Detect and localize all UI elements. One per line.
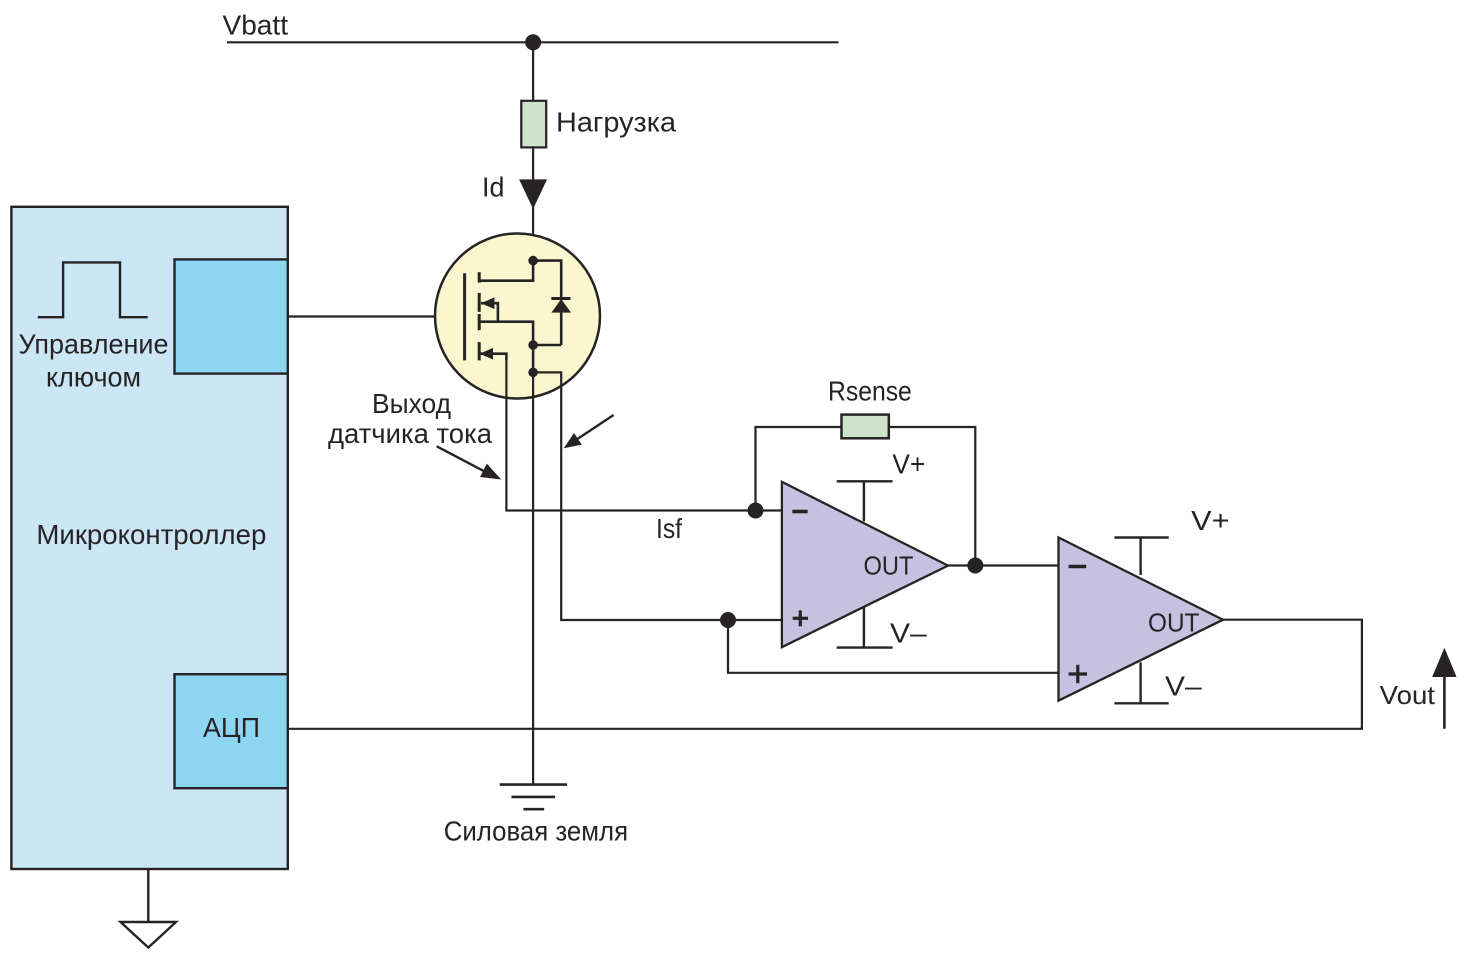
ground symbol (microcontroller, open triangle)	[121, 922, 177, 948]
body diode anode wire	[560, 313, 563, 345]
svg-text:Id: Id	[482, 172, 504, 203]
U2 inverting input sign	[1069, 565, 1087, 569]
ADC sub-block	[175, 674, 288, 788]
node Q1 drain	[528, 256, 538, 266]
U2 noninverting input sign	[1069, 672, 1087, 675]
node inverting input U1	[748, 503, 764, 519]
current direction arrow Id	[519, 179, 547, 209]
resistor Rsense	[842, 415, 889, 439]
Q1 main source arrow	[481, 303, 498, 322]
resistor load (Нагрузка)	[521, 101, 546, 148]
node Vbatt junction	[525, 34, 541, 50]
node U1 output	[967, 558, 983, 574]
U1 V+ rail	[863, 481, 865, 521]
node noninverting input U1	[720, 612, 736, 628]
wire feedback from inverting node to Rsense	[756, 427, 842, 511]
node Q1 main source	[528, 340, 538, 350]
svg-text:Выход: Выход	[372, 388, 451, 419]
Q1 drain lead	[479, 261, 533, 281]
wire Rsense to output node	[889, 427, 976, 566]
Q1 channel segment body contact	[478, 293, 481, 312]
wire U1 output to U2 inverting input	[948, 564, 1059, 566]
svg-text:Vbatt: Vbatt	[223, 9, 289, 40]
U1 noninverting input sign	[793, 617, 808, 620]
svg-text:V–: V–	[890, 618, 927, 649]
svg-text:V+: V+	[892, 449, 925, 480]
svg-text:Управление: Управление	[19, 329, 169, 360]
wire main source to power ground	[532, 372, 534, 784]
Vout direction arrow	[1443, 674, 1446, 729]
svg-text:V+: V+	[1191, 505, 1229, 536]
microcontroller block	[11, 207, 287, 869]
Q1 gate electrode	[463, 273, 466, 360]
annotation arrow to kelvin wire	[574, 415, 614, 441]
body diode cathode bar	[551, 297, 570, 300]
svg-text:Isf: Isf	[656, 513, 682, 544]
wire main source node down	[532, 345, 535, 372]
svg-text:Микроконтроллер: Микроконтроллер	[36, 519, 266, 550]
Q1 channel segment source contact	[478, 314, 481, 330]
U1 V- rail	[863, 608, 865, 648]
svg-text:OUT: OUT	[1148, 608, 1200, 638]
pulse waveform icon	[38, 262, 148, 317]
node Q1 kelvin source	[528, 368, 538, 378]
gate-drive sub-block	[175, 259, 288, 373]
svg-text:V–: V–	[1165, 671, 1202, 702]
power ground symbol bar 3	[523, 808, 544, 811]
power ground symbol bar 2	[511, 796, 555, 799]
U2 V- rail	[1139, 662, 1141, 703]
wire gate drive to MOSFET gate	[288, 315, 465, 317]
U1 inverting input sign	[792, 510, 807, 514]
svg-text:АЦП: АЦП	[203, 712, 260, 743]
annotation arrow to sense output wire	[437, 446, 489, 474]
svg-text:Силовая земля: Силовая земля	[444, 816, 628, 847]
ground lead (microcontroller)	[147, 869, 149, 922]
svg-text:Vout: Vout	[1380, 680, 1436, 710]
wire load to MOSFET drain	[532, 147, 534, 260]
svg-text:ключом: ключом	[46, 361, 141, 392]
op-amp U1	[782, 482, 948, 647]
wire kelvin source to noninverting input	[533, 372, 782, 620]
body diode triangle	[551, 299, 571, 313]
wire Vbatt to load resistor	[532, 42, 534, 101]
Q1 sense source arrow	[480, 354, 507, 360]
Q1 channel segment sense contact	[478, 342, 481, 360]
wire drain node to body diode cathode	[533, 261, 561, 299]
svg-text:Нагрузка: Нагрузка	[556, 107, 676, 138]
U2 V+ rail	[1139, 538, 1141, 576]
power ground symbol bar 1	[500, 783, 567, 786]
Q1 main source lead	[479, 322, 533, 345]
svg-text:Rsense: Rsense	[828, 376, 912, 407]
transistor Q1 sense-MOSFET body (circle)	[435, 234, 600, 399]
wire U2 output to ADC input	[288, 620, 1362, 729]
op-amp U2	[1059, 538, 1224, 701]
svg-text:OUT: OUT	[864, 551, 914, 581]
wire Vbatt rail	[227, 41, 839, 43]
wire U1 noninverting node to U2 noninverting input	[728, 620, 1059, 673]
wire Isf sense output to inverting input	[506, 360, 782, 511]
svg-text:датчика тока: датчика тока	[328, 418, 492, 449]
wire main source node to diode anode	[533, 344, 561, 347]
Q1 channel segment drain contact	[478, 272, 481, 282]
